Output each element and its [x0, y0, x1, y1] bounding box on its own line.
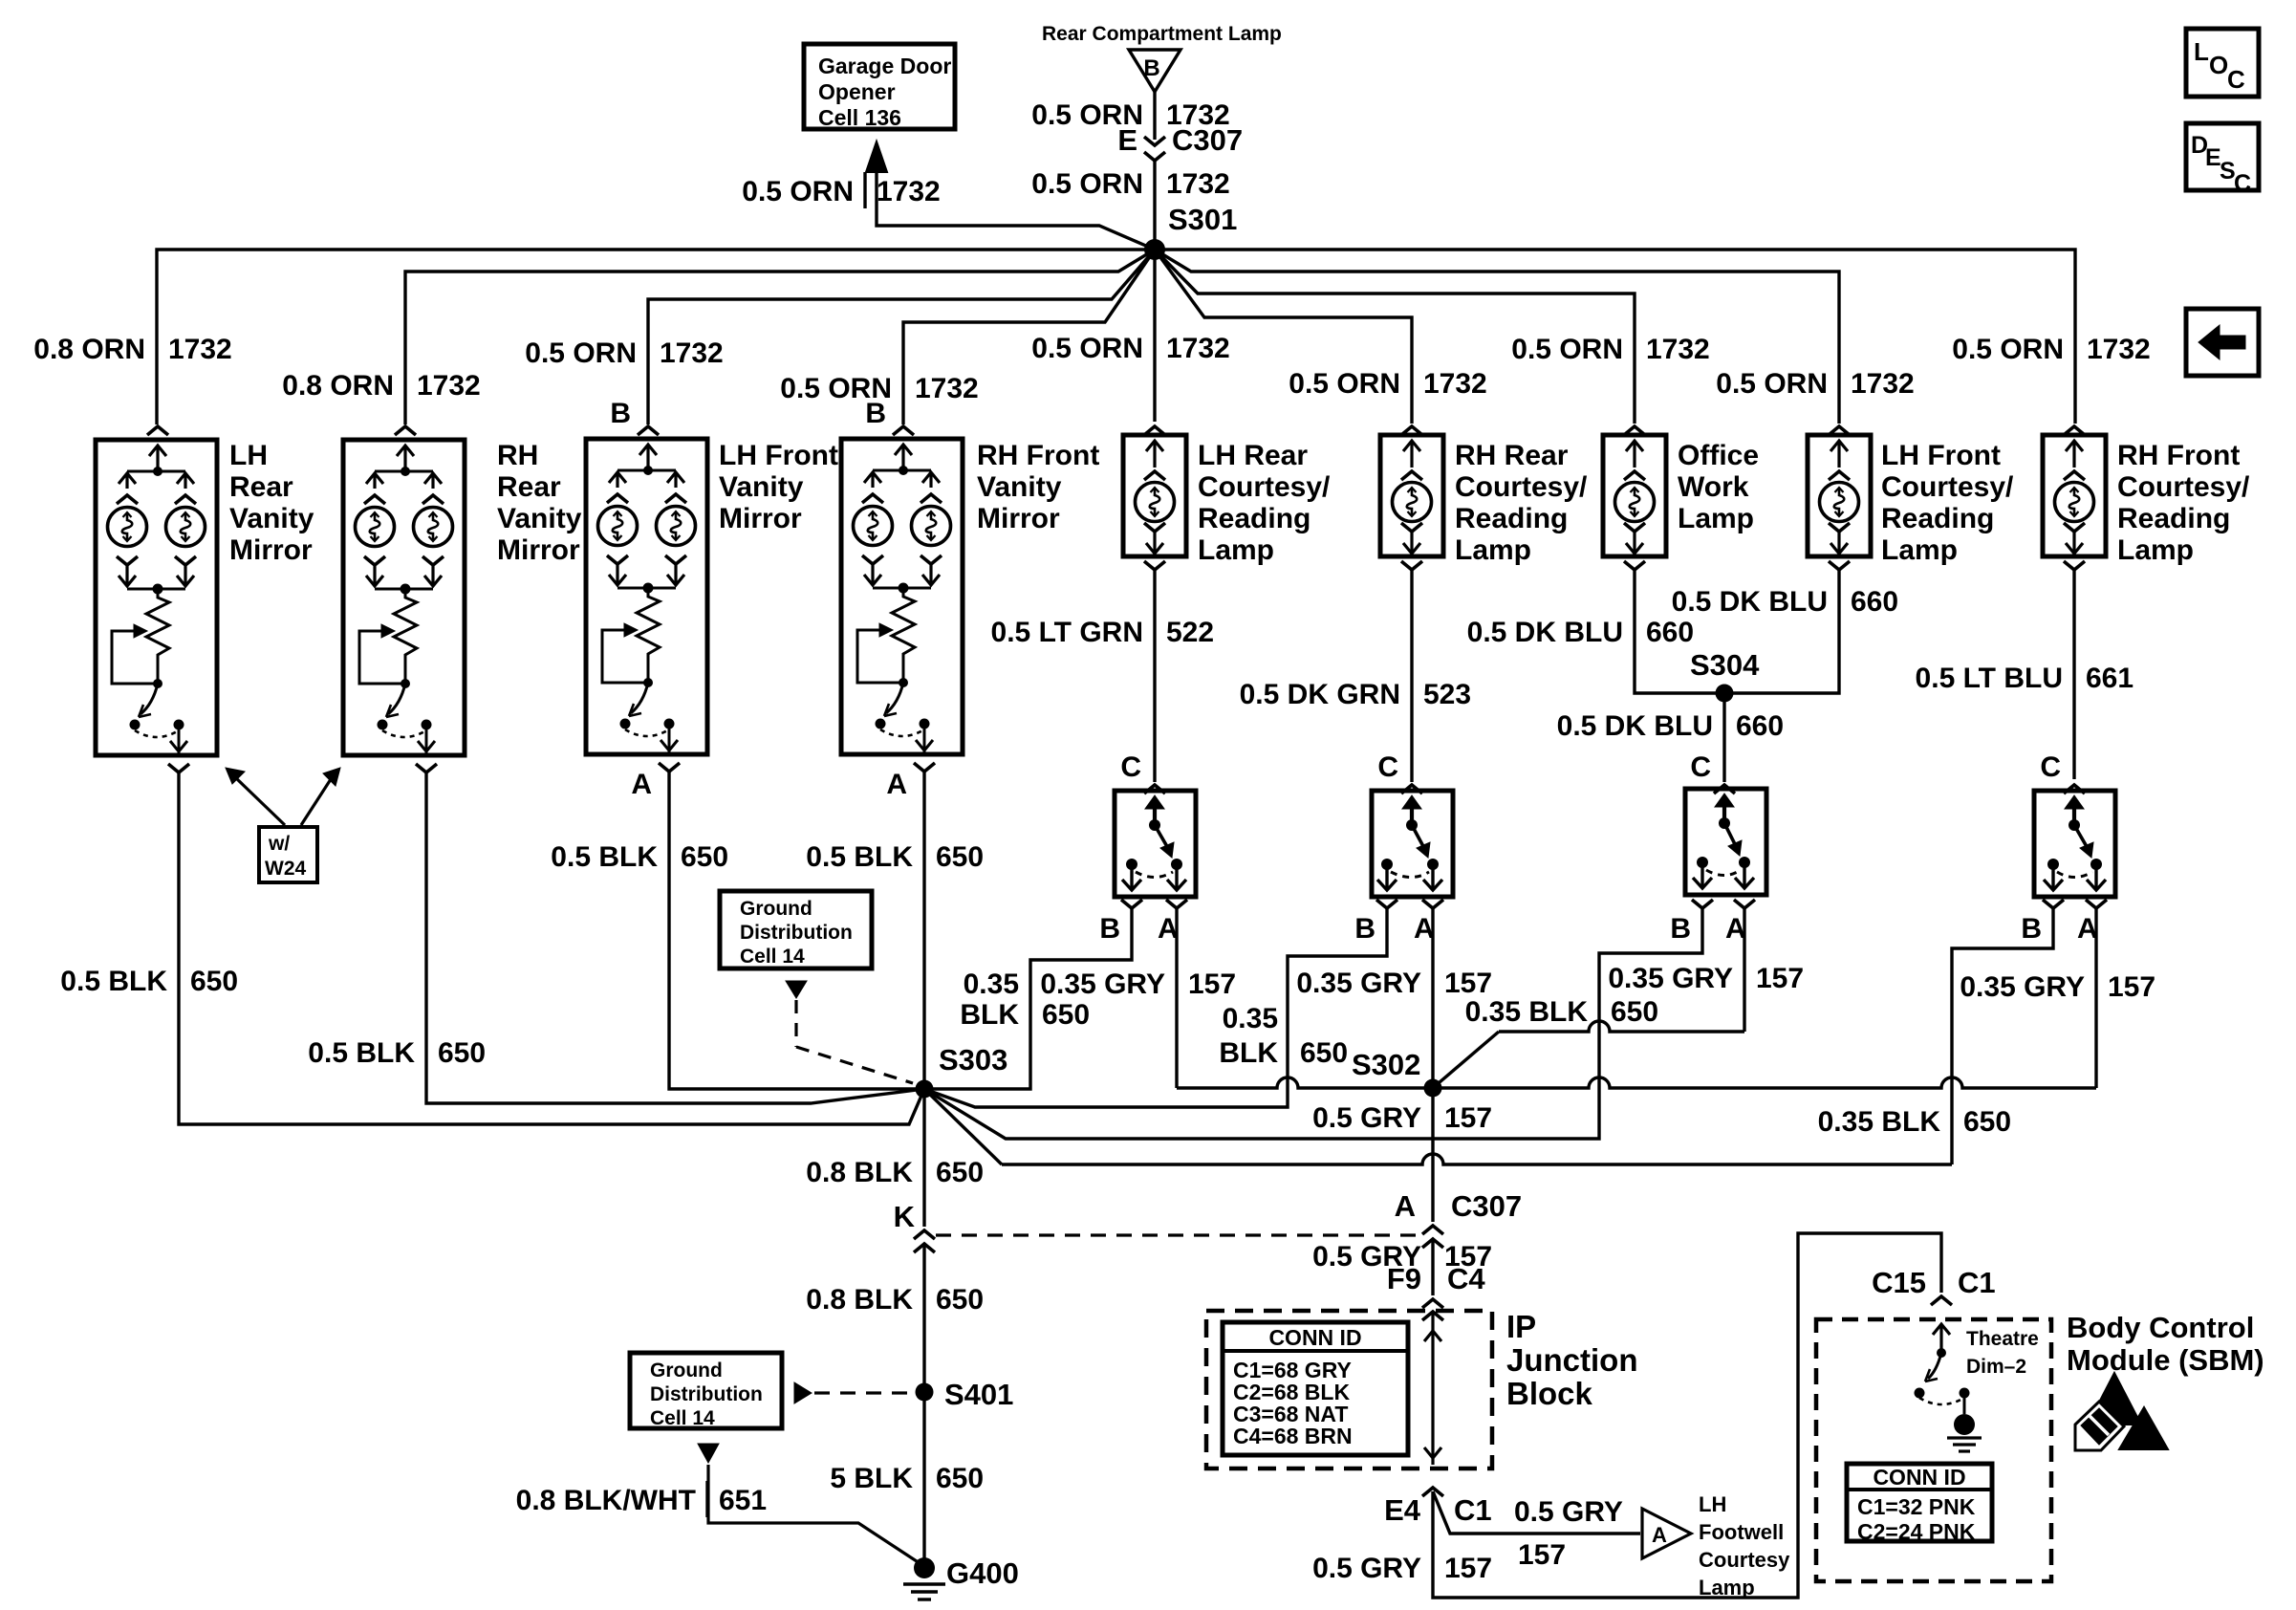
svg-text:Lamp: Lamp: [1198, 534, 1274, 566]
label pin B (LH Front Vanity): [610, 398, 631, 429]
label 0.35 GRY 157 (LH front switch A): [1608, 963, 1804, 994]
svg-text:Vanity: Vanity: [719, 471, 804, 503]
svg-text:Courtesy/: Courtesy/: [2117, 471, 2250, 503]
svg-text:650: 650: [681, 841, 728, 873]
connector triangle B (Rear Compartment Lamp): [1129, 50, 1180, 92]
label 0.35 BLK 650 (LH front switch B): [1465, 996, 1658, 1028]
svg-text:CONN ID: CONN ID: [1873, 1465, 1965, 1490]
svg-text:B: B: [865, 398, 886, 429]
wire S302 down to C307 pin A: [1431, 1088, 1434, 1222]
svg-text:IP: IP: [1506, 1309, 1536, 1344]
svg-text:B: B: [1099, 913, 1120, 945]
label LH Footwell Courtesy Lamp: [1699, 1492, 1790, 1599]
wire S301 down to LH Rear Courtesy: [1153, 250, 1156, 422]
ground G400: [903, 1556, 1019, 1599]
wire C307 K to S401: [922, 1244, 925, 1392]
label 0.8 ORN 1732 (LH Rear Vanity): [33, 334, 231, 365]
svg-text:157: 157: [1444, 1553, 1492, 1584]
svg-text:0.35 GRY: 0.35 GRY: [1296, 968, 1421, 999]
label C15 / C1: [1872, 1266, 1996, 1299]
label 0.35 BLK 650 (LH rear switch B): [960, 968, 1090, 1031]
svg-text:0.5 ORN: 0.5 ORN: [742, 176, 854, 207]
label 0.5 LT BLU 661: [1916, 663, 2134, 694]
svg-text:0.35: 0.35: [1223, 1003, 1278, 1034]
label 0.5 ORN 1732 (LH Rear Courtesy): [1031, 333, 1229, 364]
svg-text:C4=68 BRN: C4=68 BRN: [1233, 1424, 1353, 1448]
connector chevron C above LH Front switch: [1714, 785, 1735, 794]
wire LH Front Courtesy to S304: [1724, 570, 1839, 693]
dashed connector line C307: [936, 1233, 1421, 1236]
svg-text:0.8 BLK: 0.8 BLK: [806, 1284, 913, 1316]
svg-text:1732: 1732: [1166, 333, 1230, 364]
label pin C (LH Front switch): [1690, 751, 1711, 783]
label 0.5 GRY 157 (C307 to IP): [1312, 1241, 1492, 1273]
label 0.5 BLK 650 (LH front vanity): [551, 841, 728, 873]
svg-text:Cell 136: Cell 136: [818, 105, 901, 130]
svg-text:L: L: [2194, 37, 2209, 66]
svg-text:Rear: Rear: [229, 471, 293, 503]
svg-text:Cell 14: Cell 14: [650, 1407, 715, 1429]
arrow w/W24 to RH Rear Vanity: [301, 768, 340, 825]
svg-text:650: 650: [1963, 1106, 2011, 1138]
wire RH Front Vanity ground to S303: [922, 771, 925, 1089]
component LH Rear Vanity Mirror: [96, 440, 217, 755]
svg-text:0.5 BLK: 0.5 BLK: [308, 1037, 415, 1069]
switch Theatre Dim-2 (inside BCM): [1915, 1324, 1970, 1414]
table CONN ID (BCM): [1847, 1464, 1992, 1544]
component LH Front Vanity Mirror: [586, 439, 707, 754]
connector chevron pin B below RH Rear switch: [1376, 900, 1397, 908]
box Garage Door Opener Cell 136: [804, 44, 955, 130]
svg-text:650: 650: [190, 966, 238, 997]
svg-text:Rear: Rear: [497, 471, 561, 503]
wire S304 to LH Front switch C: [1722, 693, 1725, 782]
svg-text:0.8 ORN: 0.8 ORN: [33, 334, 145, 365]
svg-text:0.5 ORN: 0.5 ORN: [1716, 368, 1828, 400]
svg-text:1732: 1732: [660, 337, 724, 369]
label Rear Compartment Lamp: [1042, 23, 1282, 45]
svg-text:Footwell: Footwell: [1699, 1520, 1784, 1544]
svg-text:0.5 BLK: 0.5 BLK: [551, 841, 658, 873]
svg-text:Junction: Junction: [1506, 1342, 1638, 1378]
label pin A (RH Front Vanity): [886, 769, 907, 800]
label 0.5 ORN 1732 (rear compartment feed): [1031, 99, 1229, 131]
svg-text:C1: C1: [1958, 1266, 1996, 1299]
svg-text:A: A: [1395, 1189, 1416, 1223]
svg-text:C1: C1: [1454, 1493, 1492, 1527]
svg-text:660: 660: [1646, 617, 1694, 648]
svg-text:5 BLK: 5 BLK: [830, 1463, 913, 1494]
svg-text:K: K: [894, 1200, 916, 1233]
svg-text:157: 157: [1518, 1539, 1566, 1571]
label pin B (RH Front switch): [2021, 913, 2042, 945]
svg-text:F9: F9: [1387, 1262, 1421, 1295]
connector chevron above RH Front Vanity Mirror: [893, 426, 914, 435]
wire through IP junction block: [1424, 1312, 1441, 1465]
box IP Junction Block (dashed): [1206, 1311, 1492, 1469]
label A / C307: [1395, 1189, 1523, 1223]
svg-text:C: C: [2227, 65, 2245, 94]
svg-text:0.35 GRY: 0.35 GRY: [1040, 968, 1165, 1000]
label Office Work Lamp: [1678, 440, 1759, 534]
svg-text:Vanity: Vanity: [977, 471, 1062, 503]
svg-text:660: 660: [1736, 710, 1784, 742]
connector triangle A (LH Footwell Courtesy Lamp): [1642, 1509, 1691, 1558]
svg-text:660: 660: [1851, 586, 1898, 618]
svg-text:E: E: [1117, 123, 1137, 157]
svg-text:1732: 1732: [1166, 168, 1230, 200]
connector E4 chevron: [1422, 1488, 1443, 1496]
svg-text:C: C: [2234, 170, 2251, 197]
label E / C307: [1117, 123, 1243, 157]
svg-text:G400: G400: [946, 1556, 1019, 1590]
label 0.5 ORN 1732 (LH Front Courtesy): [1716, 368, 1914, 400]
label 0.5 GRY (footwell): [1514, 1496, 1623, 1528]
svg-text:Module (SBM): Module (SBM): [2067, 1343, 2264, 1377]
label 0.5 ORN 1732 (RH Front Courtesy): [1952, 334, 2150, 365]
label pin A (LH Front Vanity): [631, 769, 652, 800]
label 0.5 ORN 1732 (RH Rear Courtesy): [1289, 368, 1486, 400]
component RH Front Reading Lamp Switch: [2034, 791, 2115, 897]
svg-text:RH Rear: RH Rear: [1455, 440, 1569, 471]
svg-text:B: B: [2021, 913, 2042, 945]
svg-text:650: 650: [936, 1157, 984, 1188]
box Body Control Module (dashed): [1816, 1319, 2051, 1581]
label pin C (RH Front switch): [2040, 751, 2061, 783]
svg-text:Lamp: Lamp: [1881, 534, 1958, 566]
svg-text:Mirror: Mirror: [977, 503, 1060, 534]
svg-text:0.5 ORN: 0.5 ORN: [525, 337, 637, 369]
svg-text:W24: W24: [265, 858, 307, 880]
connector chevron above RH Rear Vanity Mirror: [395, 426, 416, 435]
svg-text:157: 157: [2108, 971, 2155, 1003]
svg-text:A: A: [886, 769, 907, 800]
svg-text:0.5 DK BLU: 0.5 DK BLU: [1557, 710, 1713, 742]
label 0.8 BLK/WHT 651: [516, 1481, 767, 1517]
connector chevron below Office Work Lamp: [1624, 561, 1645, 570]
box Ground Distribution Cell 14 (lower): [630, 1353, 782, 1429]
svg-text:C4: C4: [1447, 1262, 1485, 1295]
svg-text:1732: 1732: [417, 370, 481, 402]
svg-text:w/: w/: [268, 833, 290, 855]
wire LH Rear switch B to S303: [924, 908, 1132, 1089]
splice S304: [1690, 648, 1760, 703]
label LH Rear Vanity Mirror: [229, 440, 314, 566]
splice S301: [1144, 239, 1165, 260]
svg-text:B: B: [1354, 913, 1375, 945]
wire RH Rear Vanity ground to S303: [426, 771, 924, 1103]
svg-text:RH Front: RH Front: [977, 440, 1099, 471]
wire RH Front switch B to S303: [924, 908, 2053, 1164]
connector chevron above LH Rear Courtesy/Reading Lamp: [1144, 426, 1165, 435]
svg-text:S301: S301: [1168, 203, 1237, 236]
label 0.5 ORN 1732 (above S301): [1031, 168, 1229, 200]
svg-text:RH: RH: [497, 440, 538, 471]
svg-text:661: 661: [2086, 663, 2134, 694]
connector chevron below LH Rear Courtesy/Reading Lamp: [1144, 561, 1165, 570]
label 0.5 ORN 1732 (garage door wire): [742, 172, 940, 208]
component RH Rear Courtesy/Reading Lamp: [1380, 435, 1443, 556]
svg-text:C15: C15: [1872, 1266, 1926, 1299]
icon ESD warning triangles: [2075, 1373, 2168, 1450]
svg-text:E4: E4: [1384, 1493, 1421, 1527]
svg-text:Work: Work: [1678, 471, 1749, 503]
connector chevron below RH Front Vanity Mirror: [914, 763, 935, 772]
label 0.35 GRY 157 (LH rear switch A): [1040, 968, 1236, 1000]
svg-text:0.5 ORN: 0.5 ORN: [1031, 168, 1143, 200]
svg-text:Lamp: Lamp: [1678, 503, 1754, 534]
label RH Rear Vanity Mirror: [497, 440, 582, 566]
svg-text:0.8 BLK: 0.8 BLK: [806, 1157, 913, 1188]
connector chevron pin A below LH Rear switch: [1166, 900, 1187, 908]
svg-text:1732: 1732: [168, 334, 232, 365]
box w/ W24: [259, 827, 317, 882]
component RH Rear Reading Lamp Switch: [1372, 791, 1453, 897]
svg-text:LH: LH: [229, 440, 268, 471]
connector chevron pin A below RH Rear switch: [1422, 900, 1443, 908]
connector chevron below RH Rear Courtesy/Reading Lamp: [1401, 561, 1422, 570]
svg-text:Vanity: Vanity: [497, 503, 582, 534]
svg-text:BLK: BLK: [960, 999, 1019, 1031]
label pin A (LH Front switch): [1725, 913, 1746, 945]
label 0.5 BLK 650 (LH rear vanity): [60, 966, 238, 997]
label pin B (LH Front switch): [1670, 913, 1691, 945]
wire E4 to LH Footwell Courtesy Lamp: [1433, 1491, 1640, 1534]
component LH Front Courtesy/Reading Lamp: [1808, 435, 1871, 556]
svg-text:651: 651: [719, 1485, 767, 1516]
table CONN ID (IP junction block): [1223, 1322, 1408, 1455]
wire LH Front switch A to S302: [1433, 908, 1744, 1088]
wire S301 to RH Rear Vanity: [405, 250, 1155, 424]
svg-text:C: C: [1120, 751, 1141, 783]
connector chevron pin B below LH Front switch: [1692, 900, 1713, 908]
svg-text:B: B: [610, 398, 631, 429]
wire LH Rear Courtesy to switch C: [1153, 570, 1156, 782]
svg-text:Courtesy: Courtesy: [1699, 1548, 1790, 1572]
label 0.5 BLK 650 (RH rear vanity): [308, 1037, 486, 1069]
svg-text:RH Front: RH Front: [2117, 440, 2240, 471]
label pin K: [894, 1200, 916, 1233]
label LH Front Courtesy/Reading Lamp: [1881, 440, 2014, 566]
label 0.8 BLK 650 (S303 to C307): [806, 1157, 984, 1188]
svg-text:C2=24 PNK: C2=24 PNK: [1857, 1519, 1976, 1544]
svg-text:A: A: [631, 769, 652, 800]
label pin B (RH Front Vanity): [865, 398, 886, 429]
svg-text:B: B: [1670, 913, 1691, 945]
svg-text:Mirror: Mirror: [229, 534, 313, 566]
label 157 (footwell): [1518, 1539, 1566, 1571]
connector chevron C above LH Rear switch: [1144, 785, 1165, 794]
connector F9/C4 chevrons: [1422, 1299, 1443, 1320]
wire S301 to RH Rear Courtesy: [1155, 250, 1412, 424]
svg-text:157: 157: [1188, 968, 1236, 1000]
svg-text:0.35 GRY: 0.35 GRY: [1608, 963, 1733, 994]
svg-text:C: C: [2040, 751, 2061, 783]
svg-text:C: C: [1377, 751, 1398, 783]
svg-text:Ground: Ground: [740, 898, 812, 920]
svg-text:1732: 1732: [2087, 334, 2151, 365]
label 0.5 ORN 1732 (LH Front Vanity): [525, 337, 723, 369]
wire S301 to garage door opener: [877, 168, 1155, 250]
label 0.8 BLK 650 (C307 to S401): [806, 1284, 984, 1316]
svg-text:Cell 14: Cell 14: [740, 946, 805, 968]
svg-text:0.5 DK GRN: 0.5 DK GRN: [1240, 679, 1400, 710]
wire S301 to LH Front Courtesy: [1155, 250, 1839, 424]
label pin B (LH Rear switch): [1099, 913, 1120, 945]
label 0.5 DK BLU 660 (below S304): [1557, 710, 1784, 742]
connector chevron above Office Work Lamp: [1624, 426, 1645, 435]
svg-text:1732: 1732: [1646, 334, 1710, 365]
svg-text:BLK: BLK: [1219, 1037, 1278, 1069]
connector chevron below RH Rear Vanity Mirror: [416, 764, 437, 772]
svg-text:Mirror: Mirror: [497, 534, 580, 566]
wire C307 to S301: [1153, 161, 1156, 250]
label Body Control Module (SBM): [2067, 1311, 2264, 1377]
svg-text:Rear Compartment Lamp: Rear Compartment Lamp: [1042, 23, 1282, 45]
connector chevron above LH Front Courtesy/Reading Lamp: [1829, 426, 1850, 435]
wire RH Rear Courtesy to switch C: [1410, 570, 1413, 782]
label 0.5 LT GRN 522: [991, 617, 1215, 648]
svg-text:O: O: [2209, 51, 2228, 79]
connector C15/C1 chevron: [1931, 1296, 1952, 1305]
label Theatre Dim-2: [1966, 1328, 2039, 1378]
label LH Front Vanity Mirror: [719, 440, 838, 534]
svg-text:0.5 GRY: 0.5 GRY: [1312, 1102, 1421, 1134]
label 0.5 ORN 1732 (Office Work Lamp): [1511, 334, 1709, 365]
svg-text:0.5 LT BLU: 0.5 LT BLU: [1916, 663, 2063, 694]
svg-text:Lamp: Lamp: [2117, 534, 2194, 566]
label E4 / C1: [1384, 1493, 1492, 1527]
wire S301 to RH Front Vanity: [903, 250, 1155, 424]
svg-text:Distribution: Distribution: [650, 1383, 763, 1405]
svg-text:0.5 ORN: 0.5 ORN: [1289, 368, 1400, 400]
svg-text:0.5 BLK: 0.5 BLK: [60, 966, 167, 997]
label pin C (RH Rear switch): [1377, 751, 1398, 783]
svg-text:Reading: Reading: [1198, 503, 1310, 534]
wire S302 to RH Front switch A: [1433, 908, 2096, 1088]
label 0.35 GRY 157 (RH front switch A): [1960, 971, 2155, 1003]
wire LH Front switch B to S303: [924, 908, 1702, 1139]
dashed reference arrow Ground Distribution to S401: [794, 1382, 911, 1403]
svg-text:522: 522: [1166, 617, 1214, 648]
svg-text:Courtesy/: Courtesy/: [1881, 471, 2014, 503]
svg-text:0.35 BLK: 0.35 BLK: [1465, 996, 1589, 1028]
svg-text:Reading: Reading: [2117, 503, 2230, 534]
svg-text:LH: LH: [1699, 1492, 1726, 1516]
reference arrow Ground Distribution to G400 wire: [698, 1444, 922, 1565]
label 0.5 DK BLU 660 (LH front courtesy): [1672, 586, 1898, 618]
connector C307 pin K chevrons: [914, 1230, 935, 1252]
svg-text:650: 650: [936, 1284, 984, 1316]
label IP Junction Block: [1506, 1309, 1638, 1411]
svg-text:0.5 GRY: 0.5 GRY: [1312, 1553, 1421, 1584]
svg-text:C: C: [1690, 751, 1711, 783]
label LH Rear Courtesy/Reading Lamp: [1198, 440, 1331, 566]
svg-text:Reading: Reading: [1881, 503, 1994, 534]
svg-text:1732: 1732: [915, 373, 979, 404]
svg-text:Vanity: Vanity: [229, 503, 314, 534]
arrow into garage door opener box: [866, 141, 887, 172]
connector C307 pin E chevrons: [1144, 137, 1165, 161]
wire S301 to Office Work Lamp: [1155, 250, 1635, 424]
label S301: [1168, 203, 1237, 236]
svg-text:650: 650: [936, 1463, 984, 1494]
svg-text:157: 157: [1756, 963, 1804, 994]
connector chevron below LH Front Vanity Mirror: [659, 763, 680, 772]
label pin A (LH Rear switch): [1158, 913, 1179, 945]
icon box LOC: [2186, 29, 2259, 97]
svg-text:0.5 ORN: 0.5 ORN: [1031, 333, 1143, 364]
svg-text:Office: Office: [1678, 440, 1759, 471]
connector C307 pin A chevrons: [1422, 1226, 1443, 1248]
wire RH Front Courtesy to switch C: [2072, 570, 2075, 779]
svg-text:S302: S302: [1352, 1048, 1420, 1081]
svg-text:B: B: [1143, 55, 1159, 81]
label RH Front Vanity Mirror: [977, 440, 1099, 534]
connector chevron pin B below LH Rear switch: [1121, 900, 1142, 908]
wire LH Rear switch A to S302: [1177, 908, 1433, 1088]
dashed reference arrow Ground Distribution to S303: [786, 981, 913, 1083]
svg-text:0.5 BLK: 0.5 BLK: [806, 841, 913, 873]
wire Office Work Lamp to S304: [1635, 570, 1724, 693]
label 0.35 BLK 650 (RH rear switch B): [1219, 1003, 1348, 1069]
svg-text:Lamp: Lamp: [1699, 1576, 1755, 1599]
svg-text:S304: S304: [1690, 648, 1760, 682]
component RH Rear Vanity Mirror: [343, 440, 465, 755]
svg-text:C307: C307: [1172, 123, 1243, 157]
svg-text:0.5 DK BLU: 0.5 DK BLU: [1672, 586, 1828, 618]
connector chevron above LH Front Vanity Mirror: [638, 426, 659, 435]
splice S303: [916, 1043, 1008, 1099]
wire RH Rear switch A to S302: [1431, 908, 1434, 1088]
wire S301 to LH Front Vanity: [648, 250, 1155, 424]
svg-text:650: 650: [438, 1037, 486, 1069]
connector chevron above LH Rear Vanity Mirror: [147, 426, 168, 435]
wire main feed bus y=261 (LH Rear Vanity to RH Front Courtesy): [157, 250, 2075, 424]
connector chevron below LH Rear Vanity Mirror: [168, 764, 189, 772]
label RH Rear Courtesy/Reading Lamp: [1455, 440, 1588, 566]
svg-text:0.5 ORN: 0.5 ORN: [1511, 334, 1623, 365]
svg-text:0.35 BLK: 0.35 BLK: [1818, 1106, 1941, 1138]
label F9 / C4: [1387, 1262, 1486, 1295]
component LH Rear Reading Lamp Switch: [1115, 791, 1196, 897]
label pin C (LH Rear switch): [1120, 751, 1141, 783]
svg-text:650: 650: [1300, 1037, 1348, 1069]
label 0.35 GRY 157 (RH rear switch A): [1296, 968, 1492, 999]
connector chevron pin A below RH Front switch: [2086, 900, 2107, 908]
svg-text:157: 157: [1444, 1102, 1492, 1134]
svg-text:C307: C307: [1451, 1189, 1522, 1223]
label 0.5 DK GRN 523: [1240, 679, 1471, 710]
label 0.5 BLK 650 (RH front vanity): [806, 841, 984, 873]
svg-text:Theatre: Theatre: [1966, 1328, 2039, 1350]
wire RH Rear switch B to S303: [924, 908, 1387, 1107]
svg-text:S401: S401: [944, 1378, 1013, 1411]
svg-text:LH Front: LH Front: [719, 440, 838, 471]
connector chevron below LH Front Courtesy/Reading Lamp: [1829, 561, 1850, 570]
arrow w/W24 to LH Rear Vanity: [226, 768, 285, 825]
label 5 BLK 650: [830, 1463, 984, 1494]
connector chevron below RH Front Courtesy/Reading Lamp: [2064, 561, 2085, 570]
connector chevron pin B below RH Front switch: [2043, 900, 2064, 908]
svg-text:650: 650: [1042, 999, 1090, 1031]
wire from triangle B to C307: [1153, 92, 1156, 140]
component RH Front Courtesy/Reading Lamp: [2043, 435, 2106, 556]
svg-text:A: A: [1652, 1523, 1667, 1547]
svg-text:523: 523: [1423, 679, 1471, 710]
splice S401: [916, 1378, 1014, 1411]
svg-text:0.5 GRY: 0.5 GRY: [1514, 1496, 1623, 1528]
